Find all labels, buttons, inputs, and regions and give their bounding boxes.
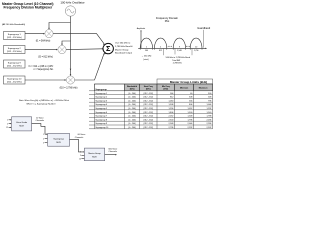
svg-text:Channels: Channels xyxy=(109,151,117,153)
mixer M2 xyxy=(58,46,66,54)
svg-text:10: 10 xyxy=(79,158,81,160)
wire: mixer M1 to summer xyxy=(53,34,104,45)
wire: voice MUX to supergroup MUX xyxy=(32,124,48,135)
svg-text:Bandwidth: Bandwidth xyxy=(127,85,138,88)
svg-text:(312 - 552 kHz): (312 - 552 kHz) xyxy=(7,51,22,53)
svg-text:Supergroup 2: Supergroup 2 xyxy=(8,48,22,50)
wire: mixer M3 to summer xyxy=(75,53,105,80)
table row supergroup 3 xyxy=(95,100,211,102)
table row supergroup 4 xyxy=(95,104,212,106)
svg-text:Master Group Limits (kHz): Master Group Limits (kHz) xyxy=(170,80,207,84)
wire: branch to mixer M1 xyxy=(49,23,71,30)
spectrum hump SG1 xyxy=(140,38,152,48)
svg-text:Voice Grade: Voice Grade xyxy=(16,122,28,124)
svg-text:Master Group: Master Group xyxy=(88,152,101,155)
voice inputs xyxy=(9,119,11,121)
svg-text:(f1 = 564 kHz): (f1 = 564 kHz) xyxy=(36,40,51,42)
svg-text:Master Group: Master Group xyxy=(115,48,129,51)
table: master group limits title cell xyxy=(157,79,213,84)
table row supergroup 6 xyxy=(95,112,211,114)
svg-text:564: 564 xyxy=(145,50,148,52)
spectrum x-axis xyxy=(138,47,206,49)
svg-text:← 564 kHz: ← 564 kHz xyxy=(141,56,151,58)
svg-text:(kHz): (kHz) xyxy=(163,89,168,91)
svg-text:Supergroup: Supergroup xyxy=(53,138,64,140)
svg-text:(start): (start) xyxy=(143,58,149,61)
svg-text:Supergroup 10: Supergroup 10 xyxy=(7,78,22,80)
svg-text:2,796: 2,796 xyxy=(194,50,199,52)
svg-text:2: 2 xyxy=(80,155,81,157)
table row supergroup 5 xyxy=(95,108,211,110)
svg-text:Channels: Channels xyxy=(75,137,83,139)
mixer M3 xyxy=(66,76,74,84)
ellipsis dots between humps xyxy=(167,45,170,48)
total bandwidth annotation xyxy=(162,49,164,56)
svg-text:Total BW: Total BW xyxy=(172,59,180,62)
svg-text:60 Voice: 60 Voice xyxy=(78,134,87,136)
table row supergroup 1 xyxy=(95,93,211,95)
svg-text:2,788 kHz: 2,788 kHz xyxy=(173,63,182,65)
table row supergroup 2 xyxy=(95,97,211,99)
wire: Supergroup 2 to mixer M2 xyxy=(25,49,57,51)
wire: Supergroup 1 to mixer M1 xyxy=(25,33,44,35)
svg-text:5: 5 xyxy=(43,142,44,144)
svg-text:(312 - 552 kHz): (312 - 552 kHz) xyxy=(7,66,22,68)
wire: supergroup MUX to master group MUX xyxy=(70,139,84,152)
wire: Supergroup 10 to mixer M3 xyxy=(25,79,66,81)
table row tick dashes xyxy=(89,91,94,129)
svg-text:Supergroup 1: Supergroup 1 xyxy=(8,34,22,36)
svg-text:1: 1 xyxy=(43,134,44,136)
svg-text:1: 1 xyxy=(7,120,8,122)
svg-text:Baseband Output: Baseband Output xyxy=(115,52,132,55)
block: voice grade MUX xyxy=(12,117,32,131)
svg-text:Start Freq: Start Freq xyxy=(144,85,154,88)
svg-text:(kHz): (kHz) xyxy=(146,89,151,91)
table row supergroup 9 xyxy=(95,123,212,125)
block: Supergroup 2 input xyxy=(4,46,26,54)
table header row xyxy=(94,84,124,91)
svg-text:[All 240 kHz Bandwidth]: [All 240 kHz Bandwidth] xyxy=(2,23,25,26)
spectrum hump SG9 xyxy=(173,38,185,48)
table row supergroup 8 xyxy=(95,119,211,121)
mixer M1 xyxy=(45,29,53,37)
table row supergroup 7 xyxy=(95,116,211,118)
svg-text:12: 12 xyxy=(6,127,8,129)
spectrum hump SG2 xyxy=(154,38,166,48)
block: Supergroup 1 input xyxy=(4,32,26,40)
svg-text:(f10 = 2,796 kHz): (f10 = 2,796 kHz) xyxy=(60,88,78,90)
svg-text:MUX: MUX xyxy=(19,126,24,128)
svg-text:2,788 kHz Band &: 2,788 kHz Band & xyxy=(115,46,133,48)
svg-text:n = Supergroup No.: n = Supergroup No. xyxy=(33,68,53,71)
svg-text:Σ: Σ xyxy=(106,44,111,53)
summing amplifier U1 xyxy=(103,43,113,53)
svg-text:(kHz): (kHz) xyxy=(130,89,135,91)
svg-text:1: 1 xyxy=(80,152,81,154)
block: Supergroup 9 input xyxy=(4,60,26,68)
svg-text:Out: 564 kHz to: Out: 564 kHz to xyxy=(115,42,131,45)
svg-text:812: 812 xyxy=(159,50,162,52)
spectrum hump SG10 xyxy=(190,38,202,48)
svg-text:(312 - 552 kHz): (312 - 552 kHz) xyxy=(7,82,22,84)
svg-text:Plot: Plot xyxy=(165,19,170,23)
svg-text:100 kHz Oscillator: 100 kHz Oscillator xyxy=(60,1,84,5)
svg-text:Minimum: Minimum xyxy=(180,88,189,90)
svg-text:Channels: Channels xyxy=(36,120,44,122)
svg-text:2: 2 xyxy=(7,123,8,125)
summer output label xyxy=(115,42,133,55)
flow arrow mid-bus xyxy=(70,69,72,70)
svg-text:2,548: 2,548 xyxy=(177,50,182,52)
svg-text:Maximum: Maximum xyxy=(199,88,208,90)
svg-text:2: 2 xyxy=(43,138,44,140)
svg-text:(312 - 552 kHz): (312 - 552 kHz) xyxy=(7,37,22,39)
wire: master group output xyxy=(105,154,117,156)
svg-text:Guardband: Guardband xyxy=(197,26,211,30)
svg-text:Supergroup 9: Supergroup 9 xyxy=(8,62,22,64)
arrow on bus into mixer M3 xyxy=(70,74,72,76)
spectrum y-axis xyxy=(140,30,142,48)
block: supergroup MUX xyxy=(48,133,70,146)
table grid xyxy=(94,84,212,129)
block: Supergroup 10 input xyxy=(4,76,26,84)
svg-text:fn = 312 + (248 x n) kHz: fn = 312 + (248 x n) kHz xyxy=(29,66,54,68)
svg-text:Mix Freq: Mix Freq xyxy=(162,86,171,88)
svg-text:MUX: MUX xyxy=(56,142,61,144)
guardband pointer line xyxy=(203,30,205,48)
svg-text:Amplitude: Amplitude xyxy=(137,27,145,30)
block: master group MUX xyxy=(84,148,104,161)
wire: mixer M2 to summer xyxy=(66,48,103,51)
wire: branch to mixer M2 xyxy=(62,41,71,45)
svg-text:MUX: MUX xyxy=(92,157,97,159)
svg-text:(f2 = 812 kHz): (f2 = 812 kHz) xyxy=(38,56,53,58)
svg-text:Frequency Division Multiplexer: Frequency Division Multiplexer xyxy=(4,6,53,10)
svg-text:564 kHz to 2,788 kHz Band: 564 kHz to 2,788 kHz Band xyxy=(166,56,190,59)
wire: oscillator vertical bus xyxy=(70,16,72,75)
svg-text:Note: Mixer Freq (fn) = (248 k: Note: Mixer Freq (fn) = (248 kHz x n) + … xyxy=(19,99,69,102)
table row supergroup 10 xyxy=(95,127,211,129)
oscillator OSC1 xyxy=(65,6,75,16)
svg-text:Where n = Supergroup Number: Where n = Supergroup Number xyxy=(27,103,56,106)
